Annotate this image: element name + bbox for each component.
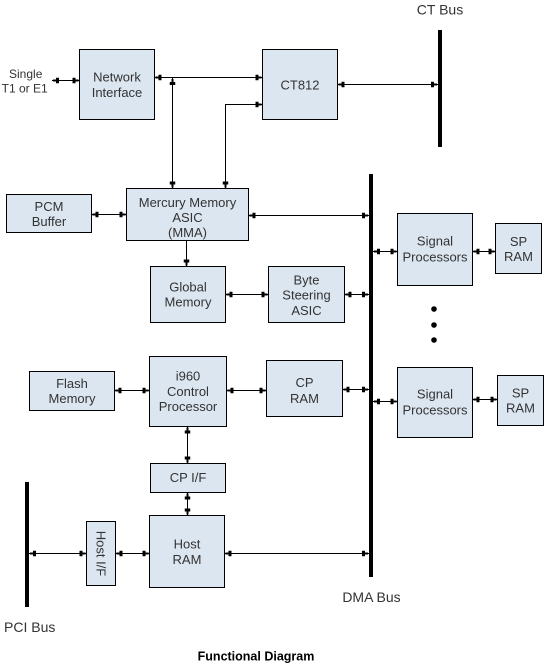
wire: Flash Memory to i960 (double arrow) [115, 388, 150, 394]
svg-text:Steering: Steering [282, 288, 330, 303]
node: Single T1 or E1 label [2, 67, 48, 96]
svg-text:RAM: RAM [173, 552, 202, 567]
wire: MMA to DMA Bus (double arrow) [249, 213, 370, 219]
svg-text:SP: SP [510, 234, 527, 249]
svg-text:ASIC: ASIC [172, 210, 202, 225]
block U14: CP I/F [151, 464, 226, 493]
wire: MMA to Global Memory (arrow down) [184, 241, 190, 267]
svg-text:CT Bus: CT Bus [417, 2, 463, 18]
svg-text:Host I/F: Host I/F [94, 531, 109, 577]
block U15: Host I/F (rotated label) [87, 522, 116, 586]
wire: CP I/F to Host RAM (vertical double arrow) [185, 493, 191, 516]
svg-text:Processors: Processors [402, 250, 468, 265]
block U7: Signal Processors (upper) [398, 214, 473, 286]
block U13: SP RAM (lower) [498, 376, 544, 426]
bus: DMA Bus [369, 174, 373, 577]
svg-text:Byte: Byte [293, 272, 319, 287]
svg-text:Host: Host [174, 536, 201, 551]
svg-text:Signal: Signal [417, 386, 453, 401]
wire: Signal Processors lower to SP RAM lower (double arrow) [473, 397, 498, 403]
svg-text:RAM: RAM [506, 400, 535, 415]
svg-text:Network: Network [93, 70, 141, 85]
svg-text:PCI Bus: PCI Bus [4, 619, 55, 635]
bus: CT Bus [438, 30, 442, 147]
block U2: CT812 [263, 50, 338, 120]
svg-text:T1 or E1: T1 or E1 [2, 82, 48, 96]
svg-text:Memory: Memory [49, 391, 96, 406]
wire: Network Interface line to Mercury Memory ASIC (vertical double arrow) [170, 78, 176, 189]
svg-text:SP: SP [512, 385, 529, 400]
block U5: Global Memory [151, 267, 226, 323]
wire: CP RAM to DMA Bus (double arrow) [343, 387, 370, 393]
block U11: CP RAM [267, 361, 343, 417]
svg-text:CP: CP [295, 375, 313, 390]
wire: Signal Processors upper to SP RAM upper (double arrow) [473, 249, 496, 255]
block U3: PCM Buffer [7, 195, 92, 233]
wire: i960 to CP I/F (vertical double arrow) [185, 427, 191, 464]
wire: Host RAM to DMA Bus (double arrow) [225, 551, 370, 557]
wire: DMA Bus to Signal Processors lower (double arrow) [373, 399, 398, 405]
block U1: Network Interface [80, 50, 155, 120]
svg-text:Control: Control [167, 384, 209, 399]
svg-text:DMA Bus: DMA Bus [342, 589, 400, 605]
wire: Host I/F to Host RAM (double arrow) [116, 551, 150, 557]
block U8: SP RAM (upper) [496, 224, 542, 274]
block U6: Byte Steering ASIC [269, 267, 345, 323]
svg-text:(MMA): (MMA) [168, 225, 207, 240]
svg-text:i960: i960 [176, 369, 201, 384]
wire: Byte Steering ASIC to DMA Bus (double arrow) [345, 292, 370, 298]
svg-text:Global: Global [169, 280, 207, 295]
svg-text:Memory: Memory [165, 295, 212, 310]
wire: Global Memory to Byte Steering ASIC (double arrow) [226, 292, 269, 298]
svg-text:Interface: Interface [92, 85, 143, 100]
svg-text:Signal: Signal [417, 234, 453, 249]
svg-text:PCM: PCM [35, 199, 64, 214]
wire: DMA Bus to Signal Processors upper (double arrow) [373, 249, 398, 255]
svg-text:CT812: CT812 [280, 78, 319, 93]
wire: Network Interface to CT812 (double arrow) [155, 75, 263, 81]
svg-text:CP I/F: CP I/F [170, 470, 207, 485]
svg-text:Flash: Flash [56, 376, 88, 391]
svg-text:Processor: Processor [159, 399, 218, 414]
svg-text:Buffer: Buffer [32, 214, 67, 229]
wire: Mercury Memory ASIC to CT812 (L-shaped double arrow) [223, 102, 263, 189]
svg-text:Mercury Memory: Mercury Memory [139, 195, 237, 210]
block U10: i960 Control Processor [150, 357, 227, 427]
node: ellipsis dots between signal processors [431, 306, 437, 343]
wire: CT812 to CT Bus (double arrow) [338, 82, 439, 88]
svg-text:RAM: RAM [290, 391, 319, 406]
bus: PCI Bus [25, 482, 29, 607]
svg-text:RAM: RAM [504, 249, 533, 264]
wire: i960 to CP RAM (double arrow) [227, 388, 267, 394]
wire: Single T1/E1 to Network Interface (double arrow) [52, 78, 80, 84]
block U12: Signal Processors (lower) [398, 368, 473, 438]
wire: PCI Bus to Host I/F (double arrow) [29, 551, 87, 557]
block U9: Flash Memory [30, 372, 115, 411]
svg-text:Processors: Processors [402, 402, 468, 417]
block U4: Mercury Memory ASIC (MMA) [127, 189, 249, 241]
svg-text:Functional Diagram: Functional Diagram [198, 650, 315, 664]
wire: PCM Buffer to MMA (double arrow) [92, 212, 127, 218]
svg-text:ASIC: ASIC [291, 303, 321, 318]
svg-text:Single: Single [9, 67, 43, 81]
block U16: Host RAM [150, 516, 225, 588]
